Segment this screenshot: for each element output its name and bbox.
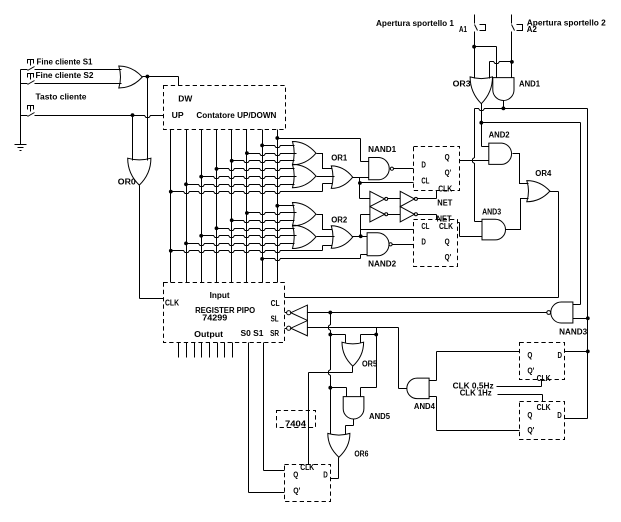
op... OR0 gate	[118, 77, 164, 299]
node OR3 out	[479, 121, 483, 125]
or gate A (3-input, upper)	[293, 142, 317, 165]
wire OR6 output to FF3 D	[338, 458, 340, 479]
svg-text:Input: Input	[210, 291, 230, 300]
svg-text:D: D	[558, 351, 563, 360]
wire gate C out to OR2 input A	[317, 215, 333, 230]
svg-text:Q': Q'	[445, 169, 452, 178]
wire Net1 vertical (hops SR line and OR5 clk line)	[329, 313, 331, 435]
node AND1 out	[502, 107, 506, 111]
svg-text:74299: 74299	[202, 314, 228, 323]
wire bit6 to OR cluster C/D	[247, 213, 297, 215]
wire FF5 Q' to AND4 input B	[437, 430, 520, 432]
or-gate OR4	[527, 169, 552, 202]
svg-text:Output: Output	[194, 330, 223, 339]
wire OR5 output to 7404 and FF3 CLK	[352, 367, 354, 373]
node grid low bit7	[260, 257, 264, 261]
wire NAND3 input B	[573, 318, 588, 320]
svg-text:7404: 7404	[285, 420, 307, 429]
register output stubs	[178, 343, 180, 358]
svg-text:AND4: AND4	[414, 402, 436, 411]
node grid up bit3	[199, 175, 203, 179]
inverter pack 7404 (dashed box)	[277, 411, 316, 429]
wire bit1 to OR2 input C	[171, 251, 323, 253]
node CL1 junction	[358, 181, 362, 185]
wire OR2 out branch up to FF2 CL net	[360, 215, 362, 237]
svg-text:Q': Q'	[293, 487, 300, 496]
wire gate B out to OR1 input B	[317, 176, 335, 178]
inverter U4b	[400, 207, 414, 222]
wire SL inverter out to SL pin	[285, 312, 287, 314]
and-gate AND5	[343, 397, 390, 422]
flip-flop FF1 (dashed box)	[414, 147, 460, 194]
svg-text:Q: Q	[293, 471, 298, 480]
flip-flop FF2 (dashed box)	[414, 220, 458, 267]
wire counter bit 8 vertical	[277, 130, 279, 283]
wire OR3 output down	[481, 104, 483, 147]
node grid up bit2	[184, 182, 188, 186]
wire S2	[21, 83, 28, 85]
svg-text:Fine cliente S2: Fine cliente S2	[36, 71, 95, 80]
switch Tasto cliente	[21, 93, 164, 118]
wire U3a to U3b	[388, 198, 401, 200]
node grid up bit4	[215, 167, 219, 171]
wire counter bit 5 vertical	[231, 130, 233, 283]
or-gate OR1	[331, 154, 353, 189]
svg-text:Q': Q'	[445, 253, 452, 262]
or gate D (3-input)	[293, 225, 317, 248]
svg-text:Q: Q	[527, 351, 532, 360]
wire SR inverter out to SR pin	[285, 328, 287, 330]
svg-text:OR0: OR0	[118, 178, 137, 187]
ground bus wire	[20, 70, 22, 145]
wire bit6 to OR cluster A/B	[247, 154, 297, 156]
svg-text:NAND3: NAND3	[559, 327, 588, 336]
or gate C (3-input, lower)	[293, 203, 317, 226]
svg-text:A2: A2	[527, 25, 538, 34]
node grid up bit8	[275, 136, 279, 140]
wire FF3 Q' to register S0	[249, 492, 285, 494]
svg-text:CL: CL	[421, 177, 429, 186]
wire counter bit 2 vertical	[186, 130, 188, 283]
wire counter bit 1 vertical	[170, 130, 172, 283]
wire bit4 to OR cluster A/B	[217, 169, 295, 171]
svg-text:SL: SL	[271, 314, 279, 323]
wire A2 branch to OR3 input B (hop over AND1 inputA wire)	[490, 62, 512, 64]
clock source CLK 1Hz	[460, 388, 543, 401]
svg-text:UP: UP	[172, 111, 185, 120]
node NAND3 input B tap	[586, 316, 590, 320]
svg-text:NET: NET	[437, 199, 452, 208]
svg-text:CLK 1Hz: CLK 1Hz	[460, 388, 492, 397]
wire FF4 Q to AND4 input A	[437, 351, 520, 353]
wire S1S2 OR output to counter DW input	[143, 76, 179, 78]
node Tasto->OR0	[131, 113, 135, 117]
or-gate OR6	[328, 433, 369, 458]
svg-text:D: D	[557, 411, 562, 420]
wire NAND1 output to FF1 D	[394, 168, 414, 170]
svg-text:CL: CL	[421, 222, 429, 231]
node grid low bit2	[184, 242, 188, 246]
wire CLK 1Hz to FF5 CLK	[498, 394, 543, 396]
wire gate A out to OR1 input A	[317, 154, 333, 169]
register U2 74299 (dashed box)	[164, 283, 285, 343]
wire FF3 Q to register S1	[264, 470, 285, 472]
svg-text:AND3: AND3	[482, 207, 501, 216]
wire CL1 to FF1 CL pin	[360, 182, 414, 184]
wire CL2 to inverter U4a	[361, 214, 370, 216]
wire FF5 D input	[565, 418, 588, 420]
or-gate OR2	[331, 215, 353, 248]
wire U3b out to FF1 CLK	[418, 198, 437, 200]
svg-text:D: D	[421, 161, 426, 170]
wire bit5 to OR cluster A/B	[232, 161, 295, 163]
svg-text:CLK: CLK	[439, 222, 453, 231]
wire OR3 out to AND2 input A	[482, 146, 489, 148]
svg-text:Q': Q'	[527, 366, 534, 375]
wire OR1 out branch down to FF1 CL net	[359, 178, 361, 199]
and-gate AND2	[489, 131, 512, 165]
svg-text:CL: CL	[271, 299, 280, 308]
or-gate OR5	[342, 342, 377, 369]
svg-text:DW: DW	[178, 95, 192, 104]
wire bit3 to OR cluster C/D	[202, 236, 297, 238]
wire NAND3 output to SL inverter	[308, 312, 547, 314]
wire FF1 Q to AND2 input B (hops AND1-net vertical)	[460, 160, 489, 162]
svg-text:CLK: CLK	[165, 298, 179, 307]
wire bit7 to OR cluster A/B	[263, 146, 295, 148]
svg-text:OR2: OR2	[331, 215, 348, 224]
node A2	[510, 60, 514, 64]
wire OR4 output to register CL	[550, 191, 559, 193]
inverter U4a	[370, 207, 385, 222]
ground	[15, 144, 27, 146]
wire AND5 output to OR6 input B	[353, 419, 355, 426]
wire AND1 output	[503, 101, 505, 109]
node OR2 out junction	[359, 234, 363, 238]
inverter SR (points left)	[291, 321, 308, 336]
wire AND1-net horizontal (hops OR3 output)	[475, 109, 588, 111]
node grid low bit3	[199, 234, 203, 238]
wire bit4 to OR cluster C/D	[217, 229, 295, 231]
wire Net1 to OR5 input A	[331, 334, 346, 336]
wire OR3-net to NAND3 input A	[482, 122, 581, 124]
svg-text:A1: A1	[459, 25, 467, 34]
inverter chain row 2 (CL2 -> FF2 CLK)	[361, 207, 452, 224]
wire Net1 to AND5 input A	[331, 387, 347, 389]
flip-flop FF4 upper right (dashed box)	[520, 343, 565, 383]
wire gate D out to OR2 input B	[317, 236, 335, 238]
node FF5 D tap	[586, 350, 590, 354]
flip-flop FF3 (dashed box)	[285, 463, 331, 502]
wire OR0 input left (from Tasto node)	[132, 116, 134, 161]
svg-text:Q: Q	[445, 153, 450, 162]
and-gate AND4 (points left)	[407, 378, 436, 411]
node grid up bit1	[169, 190, 173, 194]
nand gate NAND3 (points left)	[547, 302, 588, 336]
node grid up bit5	[230, 159, 234, 163]
wire OR1 output to NAND1 input B	[353, 177, 369, 179]
svg-text:CLK: CLK	[537, 374, 551, 383]
wire CLK 0.5Hz to FF4 CLK	[497, 386, 542, 388]
or gate B (3-input)	[293, 164, 317, 187]
svg-text:Contatore UP/DOWN: Contatore UP/DOWN	[196, 111, 276, 120]
wire AND2 output to OR4 input A	[513, 154, 529, 184]
wire A1 upper	[474, 15, 476, 24]
wire bit3 to OR cluster A/B	[202, 177, 297, 179]
counter U1 Contatore UP/DOWN (dashed box)	[164, 86, 286, 130]
node grid low bit6	[245, 211, 249, 215]
node Net1-AND5	[328, 386, 332, 390]
wire A2 lower to AND1 input B	[511, 32, 513, 78]
node grid low bit4	[215, 226, 219, 230]
and-gate AND3	[482, 207, 506, 240]
svg-text:Q: Q	[445, 238, 450, 247]
switch A1 (Apertura sportello 1)	[376, 15, 497, 79]
wire A1 branch to AND1 input A	[475, 46, 497, 48]
left input switches and ground bus	[15, 70, 27, 151]
wire U4b out to FF2 CLK	[418, 214, 437, 216]
svg-text:Tasto cliente: Tasto cliente	[36, 93, 88, 102]
inverter SL (points left)	[291, 305, 308, 320]
wire CL1 to inverter U3a	[360, 198, 370, 200]
wire AND3 output to OR4 input B	[506, 199, 529, 230]
wire SR-net (AND4 out to SR inverter)	[308, 327, 399, 329]
node NAND3 out branch	[328, 311, 332, 315]
svg-text:Q: Q	[527, 411, 532, 420]
wire OR0 output to register CLK	[139, 186, 141, 299]
wire U4a to U4b	[388, 214, 401, 216]
wire counter bit 4 vertical	[216, 130, 218, 283]
wire AND1-net right leg down to NAND3 B and FF D pins	[587, 109, 589, 419]
inverter U3a	[370, 191, 385, 206]
wire bit5 to OR cluster C/D	[232, 221, 295, 223]
svg-text:CLK: CLK	[537, 403, 551, 412]
wire bit2 to OR cluster A/B	[187, 185, 295, 187]
wire OR2 output to NAND2 input A	[353, 236, 368, 238]
svg-text:NAND1: NAND1	[368, 145, 397, 154]
switch S2 (Fine cliente S2)	[21, 71, 122, 85]
svg-text:S0 S1: S0 S1	[241, 329, 265, 338]
node grid low bit5	[230, 218, 234, 222]
wire bit2 to OR cluster C/D	[187, 244, 295, 246]
nand gate NAND1	[368, 145, 397, 180]
nand gate NAND2	[367, 233, 397, 269]
wire counter bit 3 vertical	[201, 130, 203, 283]
svg-text:SR: SR	[270, 329, 279, 338]
inverter chain row 1 (CL1 -> FF1 CLK)	[360, 191, 453, 208]
svg-text:Fine cliente S1: Fine cliente S1	[37, 57, 94, 66]
svg-text:CLK: CLK	[300, 463, 314, 472]
wire bit8 to OR cluster C/D	[278, 205, 295, 207]
svg-text:CLK: CLK	[438, 184, 452, 193]
wire AND1-net left leg down to AND3 input A (hops FF1 Q wire)	[473, 109, 475, 222]
svg-text:OR3: OR3	[453, 79, 472, 88]
svg-text:Apertura sportello 1: Apertura sportello 1	[376, 19, 455, 28]
wire counter bit 6 vertical	[246, 130, 248, 283]
wire SR-net branch to OR5 input B and AND5 input B	[376, 328, 378, 388]
or gate S1+S2	[119, 66, 179, 88]
node A1	[472, 45, 476, 49]
wire bit8 to NAND1 input A	[278, 138, 361, 140]
svg-text:Apertura sportello 2: Apertura sportello 2	[527, 19, 607, 28]
wire bit7 to NAND2 input B	[263, 259, 361, 261]
svg-text:AND2: AND2	[489, 131, 511, 140]
node grid low bit1	[169, 249, 173, 253]
wire FF4 D input	[565, 351, 588, 353]
svg-text:OR4: OR4	[535, 169, 552, 178]
svg-text:D: D	[323, 471, 328, 480]
node SR branch	[374, 333, 378, 337]
and-gate AND1	[493, 78, 541, 101]
svg-text:AND1: AND1	[519, 79, 541, 88]
wire counter bit 7 vertical	[262, 130, 264, 283]
node grid low bit8	[275, 204, 279, 208]
wire S1	[21, 69, 28, 71]
switch S1 (Fine cliente S1)	[21, 57, 122, 70]
wire Tasto to counter UP input, hop over S1S2 branch	[21, 115, 28, 117]
wire OR0 input right (from S1S2 node), hop over Tasto wire	[147, 77, 149, 161]
inverter U3b	[400, 191, 414, 206]
node grid up bit7	[260, 144, 264, 148]
svg-text:Q': Q'	[527, 426, 534, 435]
wire A1 lower to OR3 input A	[474, 32, 476, 79]
wire bit1 to OR1 input C	[171, 192, 323, 194]
svg-text:OR5: OR5	[362, 360, 377, 369]
node S1S2 out	[146, 75, 150, 79]
switch A2 (Apertura sportello 2)	[490, 15, 607, 79]
svg-text:OR1: OR1	[331, 154, 348, 163]
svg-text:NAND2: NAND2	[368, 259, 397, 268]
flip-flop FF5 lower right (dashed box)	[520, 402, 565, 440]
svg-text:AND5: AND5	[369, 412, 391, 421]
wire NAND2 output to FF2 D	[393, 244, 414, 246]
svg-text:OR6: OR6	[354, 450, 368, 459]
svg-text:D: D	[421, 238, 426, 247]
or-gate OR3	[453, 77, 493, 104]
wire FF2 out to AND3 input B	[458, 222, 460, 224]
node Net1-OR5	[328, 333, 332, 337]
wire CL2 to FF2 CL pin	[361, 229, 414, 231]
wire A2 upper	[511, 15, 513, 24]
node grid up bit6	[245, 151, 249, 155]
clock source CLK 0.5Hz	[453, 380, 542, 391]
